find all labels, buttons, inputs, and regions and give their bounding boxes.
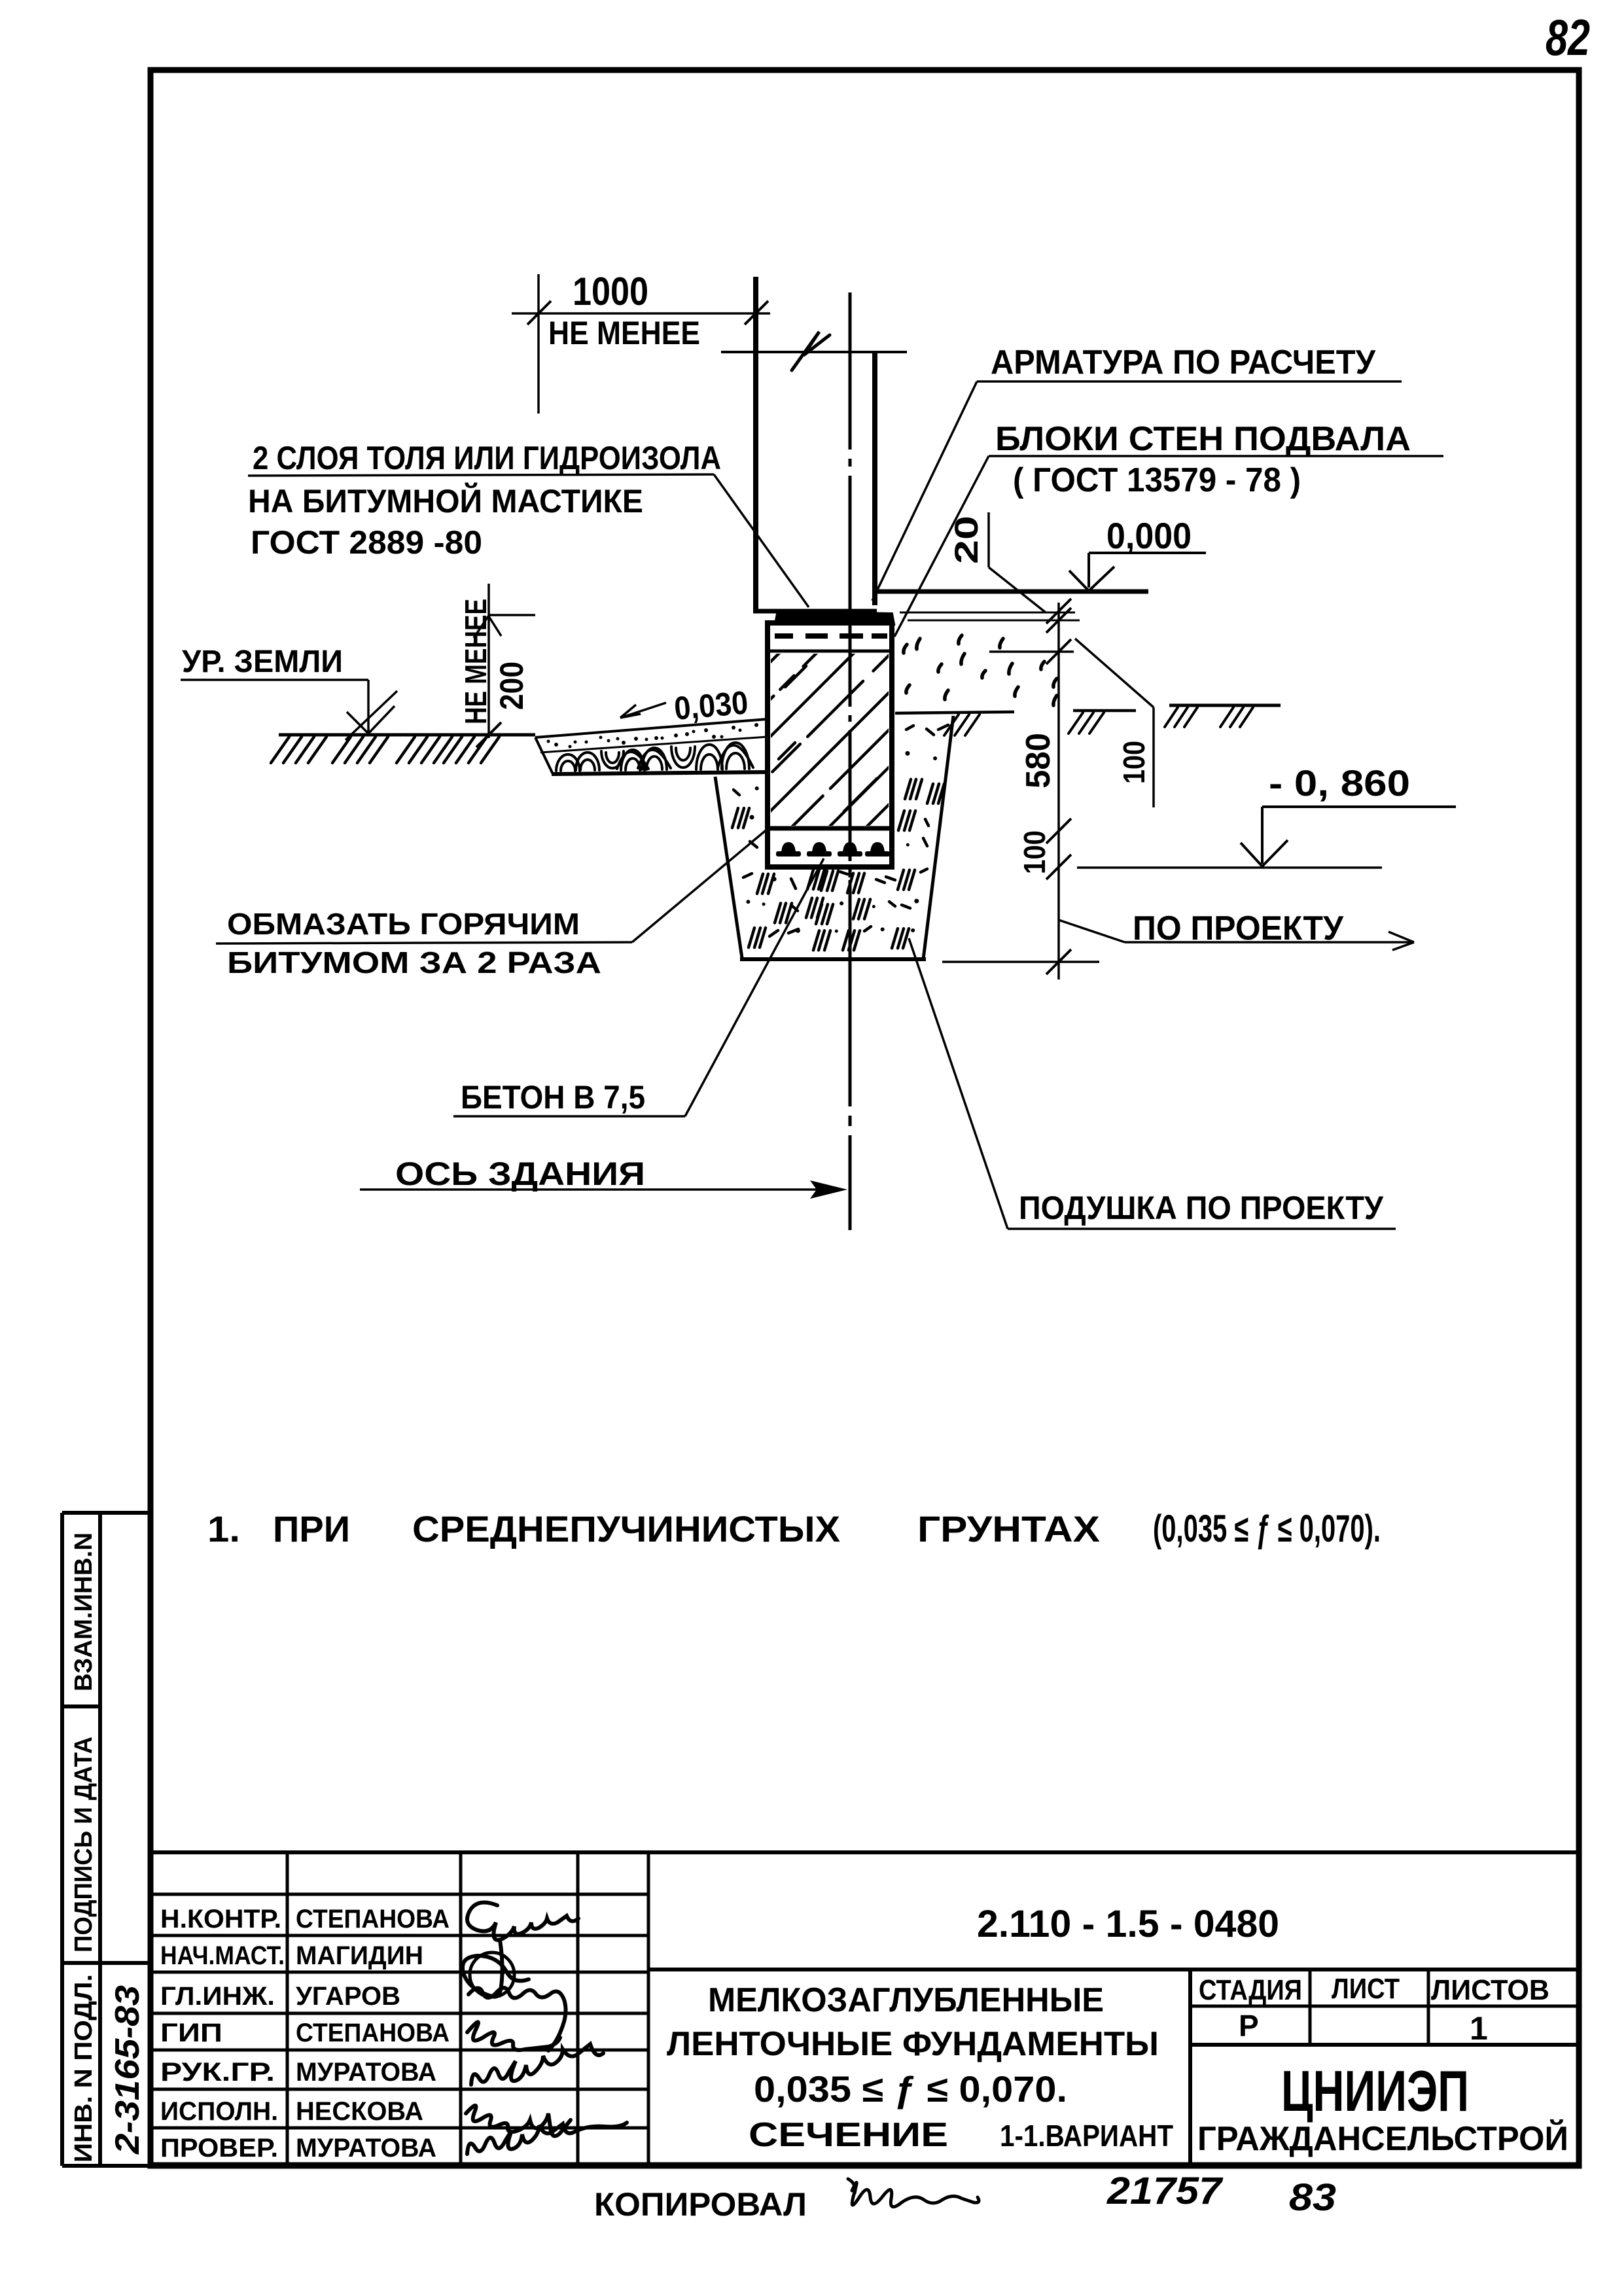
- rebar symbols: [776, 842, 890, 857]
- sidebar label взам инв N: [70, 1532, 97, 1691]
- blind area bottom line: [552, 772, 767, 774]
- ground line right 2: [1069, 711, 1136, 733]
- blind area mid line: [540, 737, 768, 752]
- label обмазать горячим: [227, 907, 580, 941]
- leader подушка: [909, 938, 1396, 1229]
- doc number 2.110-1.5-0480: [977, 1903, 1279, 1945]
- svg-text:21757: 21757: [1106, 2170, 1224, 2212]
- label арматура по расчету: [991, 344, 1376, 381]
- ground line left: [279, 733, 535, 737]
- org гражданСЕЛЬстрой: [1197, 2119, 1568, 2158]
- hydro layer line A: [900, 612, 1075, 614]
- копировал signature: [848, 2179, 979, 2207]
- копировал: [594, 2186, 807, 2223]
- ground line right 1: [895, 712, 1014, 735]
- dimension не менее 200: [474, 584, 535, 747]
- hydro layer line B: [908, 620, 1080, 622]
- foundation block outline: [768, 623, 892, 867]
- svg-text:УГАРОВ: УГАРОВ: [296, 1982, 400, 2011]
- level mark 0,000: [1069, 515, 1206, 591]
- label на битумной мастике: [248, 482, 643, 520]
- dimension chain line: [989, 599, 1074, 980]
- ground hatch left: [271, 737, 499, 763]
- wall bottom edge: [753, 609, 877, 614]
- svg-text:83: 83: [1289, 2176, 1336, 2219]
- svg-text:ПОДУШКА ПО ПРОЕКТУ: ПОДУШКА ПО ПРОЕКТУ: [1019, 1190, 1384, 1226]
- svg-text:МУРАТОВА: МУРАТОВА: [296, 2058, 436, 2087]
- block top section divider: [768, 650, 892, 653]
- reinforcement dashed line: [775, 633, 887, 639]
- title 0,035-0,070: [754, 2068, 1067, 2110]
- pit right slope: [923, 716, 953, 959]
- label блоки стен подвала: [995, 420, 1411, 458]
- value Р: [1239, 2009, 1259, 2043]
- ground line right 3: [1165, 705, 1281, 727]
- signatures column: [463, 1903, 627, 2155]
- label бетон В7,5: [461, 1079, 645, 1116]
- label ось здания: [395, 1156, 645, 1192]
- label 100 lower rotated: [1017, 830, 1052, 874]
- title ленточные фундаменты: [667, 2025, 1159, 2063]
- svg-text:СТЕПАНОВА: СТЕПАНОВА: [296, 2019, 450, 2047]
- leader блоки стен подвала: [894, 456, 1443, 637]
- svg-text:ИНВ. N ПОДЛ.: ИНВ. N ПОДЛ.: [70, 1974, 97, 2163]
- level line -0.860: [1077, 866, 1382, 869]
- svg-text:100: 100: [1117, 741, 1151, 784]
- svg-text:ГРУНТАХ: ГРУНТАХ: [917, 1508, 1100, 1549]
- title сечение 1-1 вариант: [749, 2116, 1173, 2154]
- blind area left bevel: [535, 737, 553, 774]
- number 21757: [1106, 2170, 1224, 2212]
- svg-text:НА БИТУМНОЙ МАСТИКЕ: НА БИТУМНОЙ МАСТИКЕ: [248, 482, 643, 520]
- svg-text:- 0, 860: - 0, 860: [1269, 762, 1410, 804]
- svg-text:НЕ МЕНЕЕ: НЕ МЕНЕЕ: [459, 599, 493, 724]
- label подушка по проекту: [1019, 1190, 1384, 1226]
- leader ур. земли: [181, 680, 397, 740]
- svg-text:ЛИСТ: ЛИСТ: [1332, 1973, 1400, 2005]
- svg-text:ГИП: ГИП: [160, 2019, 222, 2047]
- svg-text:НАЧ.МАСТ.: НАЧ.МАСТ.: [160, 1941, 285, 1970]
- sidebar label инв N подл: [70, 1974, 97, 2163]
- label 20 rotated: [948, 516, 985, 564]
- svg-text:82: 82: [1546, 9, 1590, 66]
- svg-text:1: 1: [1470, 2010, 1488, 2047]
- svg-text:ПОДПИСЬ И ДАТА: ПОДПИСЬ И ДАТА: [70, 1737, 97, 1952]
- level mark -0,860: [1241, 762, 1456, 866]
- svg-text:Н.КОНТР.: Н.КОНТР.: [160, 1905, 281, 1934]
- leader арматура: [872, 381, 1402, 601]
- wall right edge: [872, 353, 877, 605]
- title мелкозаглубленные: [708, 1981, 1104, 2019]
- blind area top slope: [535, 719, 768, 737]
- block hatching: [520, 648, 1083, 838]
- svg-text:МУРАТОВА: МУРАТОВА: [296, 2134, 436, 2163]
- label 1000: [573, 270, 648, 313]
- leader 100 right: [1075, 639, 1154, 807]
- title block grid: [150, 1852, 1577, 2164]
- svg-text:ВЗАМ.ИНВ.N: ВЗАМ.ИНВ.N: [70, 1532, 97, 1691]
- page number 82: [1546, 9, 1590, 66]
- note line 1: [207, 1508, 1381, 1550]
- svg-text:ЛИСТОВ: ЛИСТОВ: [1431, 1974, 1549, 2006]
- leader line 2 слоя толя: [248, 474, 809, 607]
- label ГОСТ 13579-78: [1013, 461, 1301, 499]
- leader бетон: [453, 858, 824, 1116]
- label НЕ МЕНЕЕ top: [548, 315, 700, 351]
- svg-text:АРМАТУРА ПО РАСЧЕТУ: АРМАТУРА ПО РАСЧЕТУ: [991, 344, 1376, 381]
- svg-text:0,000: 0,000: [1106, 515, 1192, 556]
- wall break zigzag: [792, 332, 830, 370]
- slope arrow: [620, 703, 666, 718]
- org ЦНИИЭП: [1281, 2058, 1469, 2123]
- number 83: [1289, 2176, 1336, 2219]
- svg-text:СТЕПАНОВА: СТЕПАНОВА: [296, 1905, 450, 1934]
- svg-text:КОПИРОВАЛ: КОПИРОВАЛ: [594, 2186, 807, 2223]
- svg-text:НЕ МЕНЕЕ: НЕ МЕНЕЕ: [548, 315, 700, 351]
- pit bottom: [740, 959, 1099, 962]
- svg-text:СТАДИЯ: СТАДИЯ: [1199, 1974, 1302, 2006]
- pit left slope: [715, 777, 742, 958]
- label 0,030: [673, 684, 749, 727]
- svg-text:УР. ЗЕМЛИ: УР. ЗЕМЛИ: [182, 645, 343, 679]
- svg-text:2 СЛОЯ ТОЛЯ ИЛИ ГИДРОИЗОЛА: 2 СЛОЯ ТОЛЯ ИЛИ ГИДРОИЗОЛА: [253, 440, 721, 476]
- label 200 rotated: [493, 662, 530, 710]
- leader обмазать: [216, 828, 768, 944]
- svg-text:ОБМАЗАТЬ ГОРЯЧИМ: ОБМАЗАТЬ ГОРЯЧИМ: [227, 907, 580, 941]
- svg-text:ГОСТ 2889 -80: ГОСТ 2889 -80: [251, 524, 482, 561]
- label 2 слоя толя или гидроизола: [253, 440, 721, 476]
- header листов: [1431, 1974, 1549, 2006]
- centerline over block: [849, 609, 852, 962]
- svg-text:ОСЬ ЗДАНИЯ: ОСЬ ЗДАНИЯ: [395, 1156, 645, 1192]
- svg-text:СРЕДНЕПУЧИНИСТЫХ: СРЕДНЕПУЧИНИСТЫХ: [412, 1508, 840, 1549]
- sidebar boxes: [62, 1513, 150, 2166]
- svg-text:580: 580: [1019, 733, 1057, 788]
- floor line 0.000: [876, 590, 1148, 594]
- svg-text:Р: Р: [1239, 2009, 1259, 2043]
- waterproofing band (2 слоя толя): [775, 612, 894, 624]
- blind area dots: [547, 723, 759, 749]
- backfill left pocket: [732, 786, 759, 847]
- label битумом за 2 раза: [227, 945, 601, 980]
- header лист: [1332, 1973, 1400, 2005]
- label ГОСТ 2889-80: [251, 524, 482, 561]
- label 580 rotated: [1019, 733, 1057, 788]
- backfill right pocket: [898, 725, 948, 847]
- label 100 right rotated: [1117, 741, 1151, 784]
- svg-text:( ГОСТ 13579 - 78 ): ( ГОСТ 13579 - 78 ): [1013, 461, 1301, 499]
- value 1: [1470, 2010, 1488, 2047]
- svg-text:ЛЕНТОЧНЫЕ ФУНДАМЕНТЫ: ЛЕНТОЧНЫЕ ФУНДАМЕНТЫ: [667, 2025, 1159, 2063]
- svg-text:НЕСКОВА: НЕСКОВА: [296, 2097, 423, 2126]
- svg-text:1-1.ВАРИАНТ: 1-1.ВАРИАНТ: [1000, 2119, 1173, 2153]
- header стадия: [1199, 1974, 1302, 2006]
- svg-text:БЕТОН В 7,5: БЕТОН В 7,5: [461, 1079, 645, 1116]
- label ур. земли: [182, 645, 343, 679]
- title block names: [296, 1905, 450, 2163]
- svg-text:1.: 1.: [207, 1508, 240, 1549]
- svg-text:МАГИДИН: МАГИДИН: [296, 1941, 423, 1970]
- wall cut line top: [721, 351, 907, 353]
- sidebar label подпись и дата: [70, 1737, 97, 1952]
- dimension line 1000: [512, 274, 770, 414]
- label по проекту: [1133, 910, 1344, 947]
- leader 20: [989, 512, 1046, 612]
- svg-text:2-3165-83: 2-3165-83: [109, 1985, 147, 2155]
- svg-text:ЦНИИЭП: ЦНИИЭП: [1281, 2058, 1469, 2123]
- svg-text:1000: 1000: [573, 270, 648, 313]
- label не менее rotated: [459, 599, 493, 724]
- sidebar number 2-3165-83: [109, 1985, 147, 2155]
- svg-text:БИТУМОМ ЗА 2 РАЗА: БИТУМОМ ЗА 2 РАЗА: [227, 945, 601, 980]
- svg-text:ПРИ: ПРИ: [273, 1508, 350, 1549]
- blind area wood grain: [556, 743, 753, 771]
- title block role labels: [160, 1905, 285, 2163]
- svg-text:2.110 - 1.5 - 0480: 2.110 - 1.5 - 0480: [977, 1903, 1279, 1945]
- svg-text:ГЛ.ИНЖ.: ГЛ.ИНЖ.: [160, 1982, 275, 2011]
- axis arrow line: [360, 1180, 847, 1199]
- soil commas right of block: [904, 635, 1057, 705]
- svg-text:100: 100: [1017, 830, 1052, 874]
- svg-text:СЕЧЕНИЕ: СЕЧЕНИЕ: [749, 2116, 948, 2154]
- svg-text:ГРАЖДАНСЕЛЬСТРОЙ: ГРАЖДАНСЕЛЬСТРОЙ: [1197, 2119, 1568, 2158]
- building axis centerline: [849, 292, 852, 1230]
- svg-text:ПРОВЕР.: ПРОВЕР.: [160, 2134, 278, 2163]
- svg-text:МЕЛКОЗАГЛУБЛЕННЫЕ: МЕЛКОЗАГЛУБЛЕННЫЕ: [708, 1981, 1104, 2019]
- svg-text:ИСПОЛН.: ИСПОЛН.: [160, 2097, 278, 2126]
- svg-text:РУК.ГР.: РУК.ГР.: [160, 2058, 275, 2087]
- block bottom section divider: [768, 826, 892, 831]
- wall left edge: [753, 277, 758, 610]
- svg-text:20: 20: [948, 516, 985, 564]
- leader по проекту: [1059, 920, 1414, 950]
- svg-text:(0,035 ≤ ƒ ≤ 0,070).: (0,035 ≤ ƒ ≤ 0,070).: [1153, 1508, 1381, 1550]
- svg-text:0,035 ≤ ƒ ≤ 0,070.: 0,035 ≤ ƒ ≤ 0,070.: [754, 2068, 1067, 2110]
- svg-text:БЛОКИ СТЕН ПОДВАЛА: БЛОКИ СТЕН ПОДВАЛА: [995, 420, 1411, 458]
- cushion fill: [743, 869, 927, 950]
- svg-text:200: 200: [493, 662, 530, 710]
